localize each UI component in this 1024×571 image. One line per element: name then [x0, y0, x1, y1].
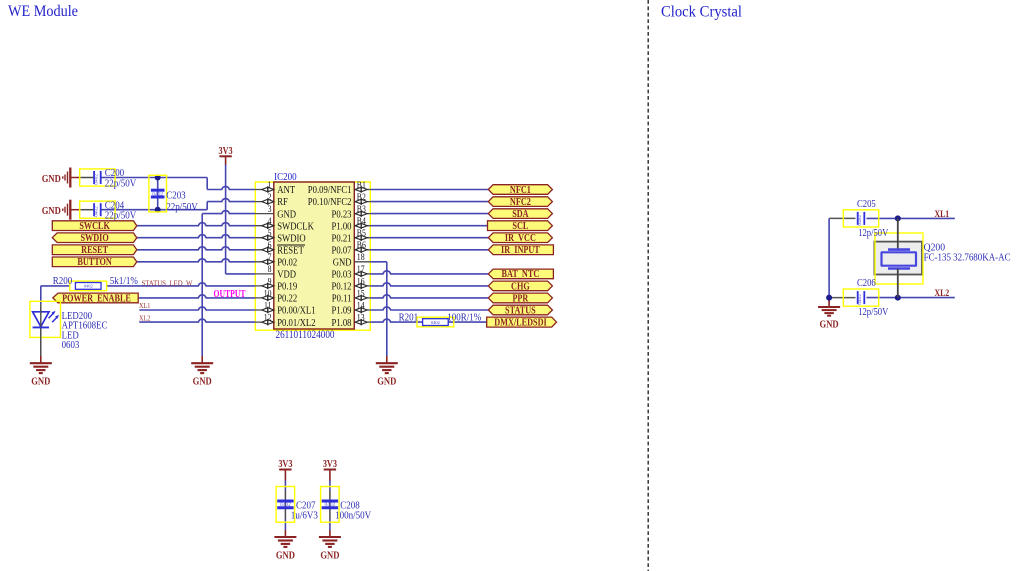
svg-text:P0.10/NFC2: P0.10/NFC2 [308, 197, 352, 208]
svg-text:WE Module: WE Module [8, 3, 78, 20]
svg-text:GND: GND [277, 209, 296, 220]
svg-text:P0.02: P0.02 [277, 258, 297, 269]
svg-text:STATUS: STATUS [505, 305, 536, 316]
svg-text:GND: GND [377, 377, 396, 388]
svg-text:P0.09/NFC1: P0.09/NFC1 [308, 185, 352, 196]
svg-text:Clock Crystal: Clock Crystal [661, 3, 743, 20]
svg-text:0402: 0402 [325, 502, 336, 508]
svg-text:R201: R201 [399, 311, 419, 323]
svg-text:RESET: RESET [81, 245, 108, 256]
svg-text:C205: C205 [857, 199, 876, 210]
svg-text:SDA: SDA [512, 209, 529, 220]
svg-text:NFC1: NFC1 [510, 185, 531, 196]
svg-text:GND: GND [333, 258, 352, 269]
svg-text:22p/50V: 22p/50V [105, 177, 137, 189]
svg-text:P0.07: P0.07 [332, 245, 352, 256]
svg-text:0402: 0402 [93, 206, 99, 217]
svg-text:P0.23: P0.23 [332, 209, 352, 220]
svg-text:POWER_ENABLE: POWER_ENABLE [62, 293, 131, 304]
svg-text:SWDCLK: SWDCLK [277, 221, 314, 232]
svg-text:PPR: PPR [512, 293, 529, 304]
svg-text:P0.19: P0.19 [277, 282, 297, 293]
svg-text:GND: GND [820, 320, 839, 331]
svg-text:P1.00: P1.00 [332, 221, 352, 232]
svg-text:12p/50V: 12p/50V [858, 307, 888, 318]
svg-text:22p/50V: 22p/50V [105, 210, 137, 222]
svg-text:8: 8 [268, 265, 272, 275]
svg-text:18: 18 [357, 253, 365, 263]
svg-text:XL1: XL1 [139, 301, 151, 310]
svg-text:VDD: VDD [277, 270, 296, 281]
svg-text:XL2: XL2 [935, 289, 950, 299]
svg-text:P1.08: P1.08 [332, 318, 352, 329]
svg-text:2611011024000: 2611011024000 [276, 329, 335, 341]
svg-text:22p/50V: 22p/50V [166, 201, 198, 213]
svg-text:XL2: XL2 [139, 313, 151, 322]
svg-text:SWDIO: SWDIO [277, 233, 306, 244]
svg-text:0402: 0402 [93, 174, 99, 185]
svg-text:RESET: RESET [277, 245, 304, 256]
svg-text:P1.09: P1.09 [332, 306, 352, 317]
svg-text:CHG: CHG [511, 281, 530, 292]
svg-text:3V3: 3V3 [219, 146, 233, 157]
svg-text:ANT: ANT [277, 185, 295, 196]
svg-text:OUTPUT: OUTPUT [214, 289, 246, 300]
svg-text:3: 3 [268, 205, 272, 215]
svg-text:5k1/1%: 5k1/1% [110, 275, 138, 287]
svg-text:BAT_NTC: BAT_NTC [502, 269, 540, 280]
svg-text:GND: GND [42, 206, 61, 217]
svg-text:SCL: SCL [512, 221, 528, 232]
svg-text:SWDIO: SWDIO [80, 233, 108, 244]
svg-text:XL1: XL1 [935, 210, 950, 220]
svg-text:0402: 0402 [152, 191, 163, 197]
svg-text:1u/6V3: 1u/6V3 [291, 510, 319, 522]
svg-text:P0.01/XL2: P0.01/XL2 [277, 318, 315, 329]
svg-text:C206: C206 [857, 278, 876, 289]
svg-text:R200: R200 [53, 275, 73, 287]
svg-text:P0.00/XL1: P0.00/XL1 [277, 306, 315, 317]
svg-text:100R/1%: 100R/1% [447, 311, 481, 323]
svg-text:P0.03: P0.03 [332, 270, 352, 281]
svg-text:100n/50V: 100n/50V [335, 510, 371, 522]
svg-text:0402: 0402 [84, 284, 93, 289]
svg-text:P0.12: P0.12 [332, 282, 352, 293]
svg-text:P0.21: P0.21 [332, 233, 352, 244]
svg-text:3V3: 3V3 [278, 459, 292, 470]
svg-text:P0.11: P0.11 [332, 294, 352, 305]
svg-text:GND: GND [320, 550, 339, 561]
svg-text:GND: GND [31, 377, 50, 388]
svg-text:IR_INPUT: IR_INPUT [501, 245, 540, 256]
svg-text:RF: RF [277, 197, 288, 208]
svg-text:STATUS_LED_W: STATUS_LED_W [142, 279, 194, 288]
svg-text:GND: GND [193, 377, 212, 388]
svg-text:0402: 0402 [280, 502, 291, 508]
svg-text:P0.22: P0.22 [277, 294, 297, 305]
svg-text:0402: 0402 [857, 215, 863, 226]
svg-text:0402: 0402 [431, 320, 440, 325]
svg-text:0603: 0603 [62, 339, 80, 351]
svg-text:IR_VCC: IR_VCC [505, 233, 536, 244]
svg-text:3V3: 3V3 [323, 459, 337, 470]
svg-text:FC-135 32.7680KA-AC: FC-135 32.7680KA-AC [924, 253, 1011, 264]
svg-text:0402: 0402 [857, 294, 863, 305]
svg-text:NFC2: NFC2 [510, 197, 531, 208]
svg-text:GND: GND [42, 174, 61, 185]
svg-text:DMX/LEDSDI: DMX/LEDSDI [494, 318, 546, 329]
svg-text:SWCLK: SWCLK [79, 221, 110, 232]
svg-text:12p/50V: 12p/50V [858, 228, 888, 239]
svg-text:IC200: IC200 [274, 171, 297, 183]
svg-text:BUTTON: BUTTON [77, 257, 112, 268]
svg-text:C203: C203 [166, 189, 186, 201]
svg-text:GND: GND [276, 550, 295, 561]
